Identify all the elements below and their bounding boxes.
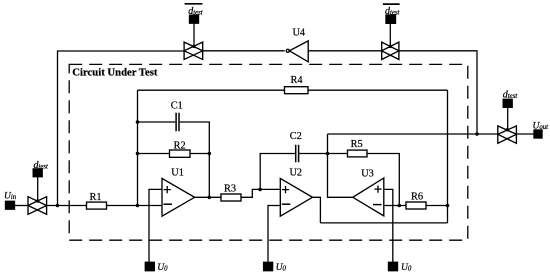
svg-text:Uin: Uin [4, 191, 17, 201]
node U2 plus input [258, 188, 262, 192]
wire switch1 to U4 output [203, 50, 285, 52]
resistor R3 [221, 194, 241, 201]
wire dtest top1 control [193, 23, 195, 46]
svg-text:Uout: Uout [533, 122, 550, 132]
svg-text:dtest: dtest [503, 90, 519, 101]
terminal U0 first [145, 262, 154, 270]
wire outer feedback left [58, 51, 185, 206]
wire top loop right [399, 51, 477, 134]
node U1 minus input [136, 204, 140, 208]
op-amp U1 [162, 178, 195, 216]
overbar dtest top2 [383, 3, 400, 5]
terminal dtest left [33, 169, 42, 177]
node U1 output [208, 196, 212, 200]
svg-text:R6: R6 [411, 191, 423, 202]
wire U1 output [195, 196, 221, 198]
node R5 R6 junction [398, 204, 402, 208]
node R2 left [136, 152, 140, 156]
plus minus signs [164, 186, 382, 205]
wire R6 right lead [426, 205, 448, 207]
wire Uin to switch [15, 205, 29, 207]
wire dtest right control [507, 107, 509, 129]
terminal Uout [534, 130, 542, 138]
wire R5 left lead [328, 153, 348, 155]
node C1 left [136, 120, 140, 124]
svg-text:U0: U0 [276, 263, 287, 273]
resistor R2 [170, 150, 191, 157]
terminal dtest top1 [190, 15, 199, 23]
svg-text:dtest: dtest [385, 6, 401, 17]
U2 plus [282, 186, 289, 193]
terminal U0 second [264, 262, 273, 270]
switch S_top2 [382, 42, 399, 59]
wire U3 minus input to R6 [384, 205, 406, 207]
resistor R5 [348, 150, 368, 157]
terminal Uin [6, 201, 15, 209]
svg-text:U0: U0 [157, 263, 168, 273]
wire C2 left lead [260, 154, 295, 190]
wire R5 right lead [367, 154, 399, 206]
svg-text:dtest: dtest [188, 6, 204, 17]
svg-text:R3: R3 [224, 184, 236, 195]
wire R4 left [138, 89, 285, 91]
wire U2 minus input to U0 [268, 206, 280, 263]
svg-text:U2: U2 [290, 168, 303, 179]
wire R3 to U2 plus input [241, 189, 280, 197]
svg-text:R4: R4 [290, 75, 302, 86]
wire R2 left lead [138, 153, 170, 155]
wire R4 right [308, 89, 448, 91]
wire R2 right lead [190, 153, 209, 155]
svg-text:R1: R1 [89, 192, 101, 203]
svg-text:C1: C1 [171, 101, 183, 112]
op-amp U3 [353, 178, 384, 216]
svg-text:U4: U4 [293, 28, 306, 39]
wire U3 plus input to U0 [384, 189, 393, 262]
svg-text:dtest: dtest [34, 160, 50, 171]
U2 minus [282, 203, 291, 205]
U1 minus [164, 203, 173, 205]
U3 plus [374, 186, 381, 193]
terminal U0 third [389, 262, 398, 270]
wire C1 left [138, 121, 176, 123]
wire U1 input node vertical [137, 90, 139, 205]
wire U3 output to output line [328, 134, 353, 197]
wire U2 output bottom run [320, 222, 447, 224]
U1 plus [164, 186, 171, 193]
svg-text:U0: U0 [401, 263, 412, 273]
wire switch to R1 [47, 205, 87, 207]
wire output line [328, 133, 498, 135]
wire U4 input to switch2 [308, 50, 382, 52]
op-amp U2 [280, 178, 312, 216]
switch S_in [28, 197, 47, 215]
svg-text:U1: U1 [171, 168, 184, 179]
svg-text:U3: U3 [361, 169, 374, 180]
svg-text:R5: R5 [351, 139, 363, 150]
wire C2 right lead [299, 153, 327, 155]
resistor R1 [87, 202, 107, 209]
capacitor C1 [176, 113, 179, 131]
wire R1 to U1 inverting input [107, 205, 163, 207]
terminal dtest right [503, 99, 512, 107]
wire U1 plus input to U0 [149, 189, 162, 262]
switch S_top1 [184, 42, 203, 59]
node output junction [475, 132, 479, 136]
node R6 right junction [446, 204, 450, 208]
node R2 right [208, 152, 212, 156]
terminal dtest top2 [386, 15, 396, 23]
resistor R4 [285, 87, 309, 94]
wire dtest top2 control [389, 23, 391, 46]
capacitor C2 [296, 145, 299, 162]
node C2 R5 junction [326, 152, 330, 156]
node input junction [56, 204, 60, 208]
wire R4 vertical down [447, 90, 449, 223]
inverter U4 [289, 41, 308, 62]
U3 minus [373, 204, 382, 206]
switch S_out [498, 126, 517, 143]
overbar dtest top1 [185, 3, 203, 5]
svg-text:C2: C2 [290, 131, 302, 142]
svg-text:Circuit Under Test: Circuit Under Test [72, 67, 158, 79]
wire C1 right [180, 122, 210, 197]
wire U2 output jog [313, 197, 321, 223]
resistor R6 [406, 202, 426, 209]
dashed box Circuit Under Test [69, 64, 468, 240]
wire dtest left control [37, 177, 39, 202]
svg-text:R2: R2 [174, 141, 186, 152]
wire switch out to Uout [516, 133, 534, 135]
